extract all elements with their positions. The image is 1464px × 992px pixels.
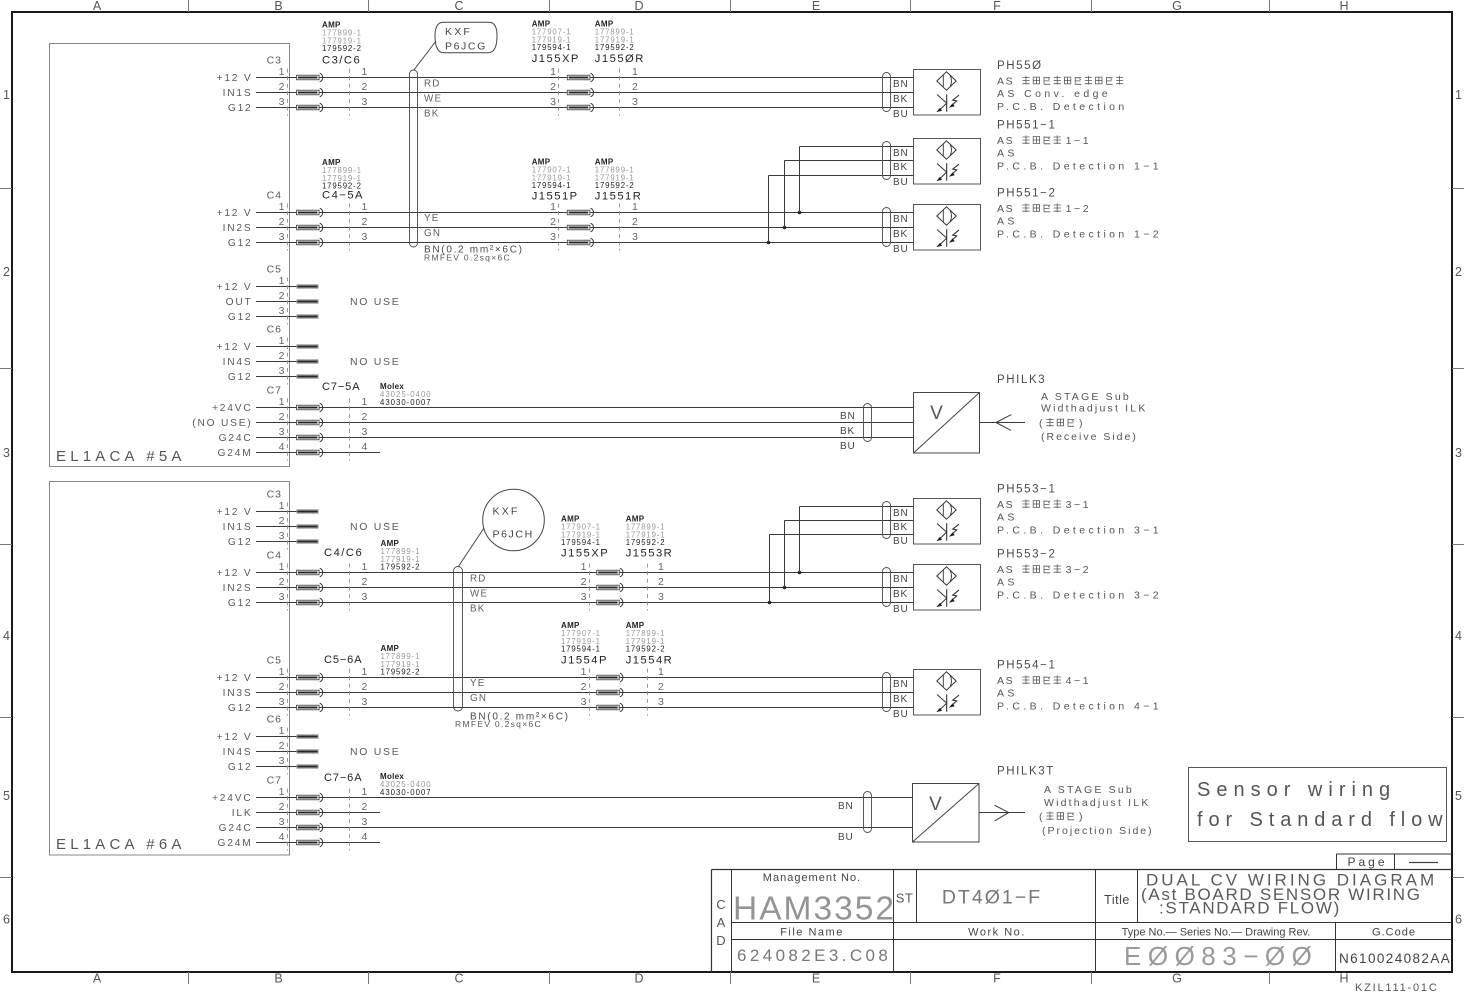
svg-text:P.C.B. Detection 3−1: P.C.B. Detection 3−1 [997, 525, 1162, 537]
svg-text:2: 2 [279, 81, 285, 93]
svg-text:3: 3 [362, 696, 368, 708]
svg-text:G24M: G24M [218, 838, 253, 849]
wire +12 V pin 1 of C5b [217, 666, 913, 684]
svg-text:J1554R: J1554R [626, 655, 674, 667]
label PH551-1 [997, 120, 1162, 173]
svg-text:IN2S: IN2S [223, 223, 253, 234]
svg-text:1: 1 [279, 396, 285, 408]
svg-text:1: 1 [362, 561, 368, 573]
svg-text:2: 2 [279, 576, 285, 588]
svg-text:AS: AS [997, 688, 1018, 700]
svg-text:AS: AS [997, 512, 1018, 524]
svg-text:2: 2 [279, 740, 285, 752]
svg-text:PHILK3: PHILK3 [997, 374, 1046, 386]
label File Name [780, 927, 844, 939]
svg-text:4: 4 [3, 629, 10, 643]
svg-text:3: 3 [279, 755, 285, 767]
svg-text:BK: BK [893, 229, 908, 240]
svg-text:+12 V: +12 V [217, 507, 253, 518]
svg-text:179592-2: 179592-2 [381, 563, 421, 572]
svg-text:C: C [716, 897, 725, 912]
svg-text:2: 2 [279, 216, 285, 228]
wire IN4S pin 2 of C6 [223, 350, 319, 368]
title block grid [712, 854, 1453, 972]
connector C5 (EL1ACA #6A) [267, 655, 350, 716]
svg-text:1: 1 [362, 201, 368, 213]
svg-text:A: A [93, 972, 102, 986]
svg-text:C7: C7 [267, 385, 282, 397]
label PHILK3T [997, 766, 1154, 838]
label PHILK3 [997, 374, 1148, 443]
svg-text:P.C.B. Detection 3−2: P.C.B. Detection 3−2 [997, 590, 1162, 602]
svg-text:P.C.B. Detection 4−1: P.C.B. Detection 4−1 [997, 701, 1162, 713]
svg-text:5: 5 [3, 789, 10, 803]
svg-text:D: D [634, 0, 643, 13]
branch wires C4 to sensor PH551-1 with junctions [767, 147, 913, 245]
svg-text:NO USE: NO USE [350, 356, 400, 368]
svg-text:179592-2: 179592-2 [595, 43, 635, 52]
svg-text:179592-2: 179592-2 [381, 668, 421, 677]
svg-text:1−2: 1−2 [1066, 203, 1092, 215]
svg-text:2: 2 [362, 81, 368, 93]
label Management No. [763, 872, 861, 884]
svg-text:D: D [634, 972, 643, 986]
svg-text:1: 1 [550, 201, 556, 213]
svg-text:2: 2 [581, 576, 587, 588]
svg-text:J155XP: J155XP [532, 53, 580, 65]
label Type-Series-Drawing [1122, 927, 1311, 939]
cable sheath KXF P6JCG [410, 70, 418, 247]
wire +12 V pin 1 of C6 [217, 335, 319, 353]
svg-text:3: 3 [279, 816, 285, 828]
svg-text:2: 2 [632, 81, 638, 93]
photo sensor PH553-1 [883, 499, 981, 548]
svg-text:P6JCH: P6JCH [493, 529, 534, 541]
connector J155XP/J1553R contacts row [581, 561, 664, 611]
drawing number KZIL111-01C [1355, 982, 1439, 992]
svg-text:2: 2 [632, 216, 638, 228]
svg-text:Page: Page [1348, 855, 1388, 869]
wire +12 V pin 1 of C5 [217, 275, 319, 293]
svg-text:Sensor wiring: Sensor wiring [1197, 779, 1396, 801]
svg-text:BU: BU [838, 832, 854, 843]
svg-text:ST: ST [896, 891, 914, 906]
svg-text:BN: BN [893, 214, 909, 225]
svg-text:RMFEV 0.2sq×6C: RMFEV 0.2sq×6C [455, 719, 542, 729]
label Title [1104, 893, 1130, 907]
wire G12 pin 3 of C4 [228, 231, 913, 249]
svg-text:PHILK3T: PHILK3T [997, 766, 1055, 778]
svg-text:BN: BN [893, 508, 909, 519]
svg-text:3: 3 [279, 591, 285, 603]
svg-text:1: 1 [279, 66, 285, 78]
svg-text:AS Conv. edge: AS Conv. edge [997, 88, 1111, 100]
wire +12 V pin 1 of C6b [217, 725, 319, 743]
svg-text:1: 1 [632, 66, 638, 78]
svg-text:624082E3.C08: 624082E3.C08 [737, 946, 891, 965]
projection arrow out of PHILK3T [979, 805, 1025, 821]
svg-text:BN: BN [838, 801, 854, 812]
svg-text:DT4Ø1−F: DT4Ø1−F [942, 887, 1042, 909]
svg-text:C4: C4 [267, 190, 282, 202]
connector C4 (EL1ACA #6A) [267, 550, 350, 611]
svg-text:C: C [454, 972, 463, 986]
svg-text:IN2S: IN2S [223, 583, 253, 594]
wire G24C pin 3 of C7b [219, 816, 912, 834]
wire +24VC pin 1 of C7b [212, 786, 912, 804]
wire G24M pin 4 of C7b [218, 831, 380, 849]
connector J155XP labels [532, 20, 580, 66]
svg-text:BN: BN [893, 79, 909, 90]
svg-text:BN: BN [893, 679, 909, 690]
svg-text:+12 V: +12 V [217, 342, 253, 353]
label NO USE (C6 #6A) [350, 746, 400, 758]
svg-text:B: B [274, 0, 282, 13]
title text [1141, 871, 1437, 918]
svg-text:E: E [812, 0, 820, 13]
wire color labels RD WE BK (cable 2) [470, 574, 488, 615]
svg-text:3: 3 [658, 591, 664, 603]
value HAM3352 [733, 891, 896, 928]
svg-text:2: 2 [362, 576, 368, 588]
leader line balloon2 to cable [458, 528, 484, 567]
cable name BN(0.2mm x 6C) 2 [455, 712, 570, 730]
value DT401-F [942, 887, 1042, 909]
wire G12 pin 3 of C3 [228, 96, 913, 114]
svg-text:KXF: KXF [445, 26, 472, 38]
svg-text:C7−5A: C7−5A [322, 381, 360, 393]
svg-text:AS: AS [997, 499, 1014, 511]
svg-text::STANDARD FLOW): :STANDARD FLOW) [1159, 899, 1341, 918]
svg-text:1: 1 [362, 786, 368, 798]
svg-text:1: 1 [279, 786, 285, 798]
svg-text:P.C.B. Detection 1−1: P.C.B. Detection 1−1 [997, 161, 1162, 173]
svg-text:C5−6A: C5−6A [324, 654, 362, 666]
svg-text:3: 3 [658, 696, 664, 708]
svg-text:A STAGE Sub: A STAGE Sub [1044, 784, 1134, 796]
svg-text:RD: RD [424, 79, 441, 90]
svg-text:G12: G12 [228, 312, 253, 323]
svg-text:179592-2: 179592-2 [626, 538, 666, 547]
svg-text:(Receive Side): (Receive Side) [1041, 431, 1138, 443]
note box Sensor wiring for Standard flow [1189, 768, 1449, 842]
connector J1554P/J1554R contacts row [581, 666, 664, 716]
svg-text:+24VC: +24VC [212, 793, 252, 804]
wire G12 pin 3 of C3b [228, 530, 319, 548]
wire IN1S pin 2 of C3 [223, 81, 913, 99]
value File Name 624082E3.C08 [737, 946, 891, 965]
svg-text:BK: BK [893, 162, 908, 173]
svg-text:3: 3 [581, 696, 587, 708]
svg-text:P.C.B. Detection 1−2: P.C.B. Detection 1−2 [997, 229, 1162, 241]
svg-text:PH554−1: PH554−1 [997, 660, 1056, 672]
value E0083-00 [1124, 941, 1318, 971]
svg-text:BN: BN [840, 411, 856, 422]
svg-text:G: G [1172, 0, 1182, 13]
svg-text:AS: AS [997, 148, 1018, 160]
svg-text:AS: AS [997, 135, 1014, 147]
wire G12 pin 3 of C6 [228, 365, 319, 383]
svg-text:2: 2 [362, 681, 368, 693]
svg-text:GN: GN [470, 693, 487, 704]
svg-text:179592-2: 179592-2 [595, 181, 635, 190]
label NO USE (C5) [350, 296, 400, 308]
wire +24VC pin 1 of C7 [212, 396, 913, 414]
svg-text:3−2: 3−2 [1066, 564, 1092, 576]
svg-text:+12 V: +12 V [217, 282, 253, 293]
svg-text:+12 V: +12 V [217, 208, 253, 219]
svg-text:1−1: 1−1 [1066, 135, 1092, 147]
svg-text:RMFEV 0.2sq×6C: RMFEV 0.2sq×6C [424, 253, 511, 263]
svg-text:1: 1 [362, 396, 368, 408]
svg-text:B: B [274, 972, 282, 986]
svg-text:+24VC: +24VC [212, 403, 252, 414]
svg-text:C3/C6: C3/C6 [322, 55, 361, 67]
connector C4/C6 cable plug labels [324, 539, 420, 572]
svg-text:1: 1 [362, 66, 368, 78]
connector C3 (EL1ACA #5A) [267, 55, 350, 116]
wire +12 V pin 1 of C3b [217, 500, 319, 518]
label NO USE (C6) [350, 356, 400, 368]
svg-text:3: 3 [1455, 446, 1462, 460]
svg-text:179592-2: 179592-2 [322, 44, 362, 53]
svg-text:F: F [993, 972, 1001, 986]
svg-text:BU: BU [893, 709, 909, 720]
svg-text:for Standard flow: for Standard flow [1197, 809, 1449, 831]
wire IN1S pin 2 of C3b [223, 515, 319, 533]
wire color labels YE GN (cable 2) [470, 678, 487, 704]
svg-text:P6JCG: P6JCG [445, 41, 487, 53]
svg-text:1: 1 [581, 666, 587, 678]
svg-text:4: 4 [279, 831, 285, 843]
connector J1553R labels [626, 515, 674, 560]
svg-text:+12 V: +12 V [217, 732, 253, 743]
svg-text:2: 2 [279, 801, 285, 813]
label PH553-1 [997, 484, 1162, 537]
svg-text:1: 1 [632, 201, 638, 213]
svg-text:HAM3352: HAM3352 [733, 891, 896, 928]
wire G24C pin 3 of C7 [219, 426, 913, 444]
connector C6 (EL1ACA #6A, no use) [267, 714, 288, 775]
label PH550 [997, 60, 1128, 113]
svg-text:1: 1 [279, 275, 285, 287]
svg-text:3: 3 [362, 231, 368, 243]
svg-text:1: 1 [550, 66, 556, 78]
svg-text:J1553R: J1553R [626, 548, 674, 560]
wire (NO USE) pin 2 of C7 [192, 411, 913, 429]
svg-text:): ) [1079, 418, 1083, 430]
connector J1550R labels [595, 20, 645, 66]
svg-text:WE: WE [424, 94, 442, 105]
svg-text:BU: BU [893, 244, 909, 255]
svg-text:G24C: G24C [219, 823, 253, 834]
svg-text:BU: BU [893, 177, 909, 188]
label ST [896, 891, 914, 906]
svg-text:3−1: 3−1 [1066, 499, 1092, 511]
wire IN2S pin 2 of C4 [223, 216, 913, 234]
svg-text:AS: AS [997, 216, 1018, 228]
interlock sensor PHILK3T (projector) [838, 784, 979, 844]
wire G12 pin 3 of C5b [228, 696, 913, 714]
svg-text:G12: G12 [228, 703, 253, 714]
svg-text:PH553−2: PH553−2 [997, 549, 1056, 561]
svg-text:(: ( [1039, 811, 1043, 823]
svg-text:PH551−1: PH551−1 [997, 120, 1056, 132]
leader line balloon to cable [414, 41, 437, 71]
svg-text:C4/C6: C4/C6 [324, 547, 363, 559]
svg-text:3: 3 [3, 446, 10, 460]
connector J155XP/J1550R contacts row1 [550, 66, 638, 116]
wire +12 V pin 1 of C4 [217, 201, 913, 219]
wire IN2S pin 2 of C4b [223, 576, 913, 594]
svg-text:IN1S: IN1S [223, 88, 253, 99]
svg-text:AS: AS [997, 577, 1018, 589]
svg-text:C4−5A: C4−5A [322, 190, 364, 202]
svg-text:3: 3 [362, 816, 368, 828]
svg-text:YE: YE [470, 678, 485, 689]
svg-text:EL1ACA #6A: EL1ACA #6A [56, 836, 186, 853]
svg-text:1: 1 [362, 666, 368, 678]
svg-text:C3: C3 [267, 489, 282, 501]
svg-text:F: F [993, 0, 1001, 13]
svg-text:): ) [1079, 811, 1083, 823]
connector J155XP labels row2 [561, 515, 609, 560]
svg-text:V: V [930, 403, 943, 424]
svg-text:(Projection Side): (Projection Side) [1042, 825, 1154, 837]
connector C5-6A cable plug labels [324, 644, 420, 677]
svg-text:C6: C6 [267, 714, 282, 726]
svg-text:BN: BN [893, 574, 909, 585]
svg-text:2: 2 [362, 801, 368, 813]
svg-text:179594-1: 179594-1 [561, 645, 601, 654]
svg-text:3: 3 [362, 96, 368, 108]
connector C6 (EL1ACA #5A, no use) [267, 324, 288, 385]
svg-text:2: 2 [279, 350, 285, 362]
svg-text:BK: BK [840, 426, 855, 437]
svg-text:43030-0007: 43030-0007 [380, 398, 432, 407]
svg-text:AS: AS [997, 203, 1014, 215]
svg-text:AS: AS [997, 564, 1014, 576]
wire +12 V pin 1 of C3 [217, 66, 913, 84]
svg-text:1: 1 [1455, 88, 1462, 102]
cable name BN(0.2mm x 6C) [424, 245, 524, 263]
svg-text:C5: C5 [267, 655, 282, 667]
svg-text:J1554P: J1554P [561, 655, 608, 667]
svg-text:2: 2 [362, 411, 368, 423]
svg-text:C7−6A: C7−6A [324, 772, 362, 784]
svg-text:J155ØR: J155ØR [595, 53, 645, 65]
svg-text:EØØ83−ØØ: EØØ83−ØØ [1124, 941, 1318, 971]
svg-text:2: 2 [658, 681, 664, 693]
svg-text:4: 4 [362, 831, 368, 843]
receive arrow into PHILK3 [980, 415, 1026, 431]
svg-text:1: 1 [279, 201, 285, 213]
svg-text:179594-1: 179594-1 [561, 538, 601, 547]
connector C5 (EL1ACA #5A, no use) [267, 264, 288, 325]
label NO USE (C3 #6A) [350, 521, 400, 533]
svg-text:179594-1: 179594-1 [532, 181, 572, 190]
connector C4-5A cable plug labels [322, 158, 364, 202]
wire OUT pin 2 of C5 [226, 290, 319, 308]
svg-text:BU: BU [893, 604, 909, 615]
svg-text:1: 1 [279, 500, 285, 512]
svg-text:KZIL111-01C: KZIL111-01C [1355, 982, 1439, 992]
photo sensor PH553-2 [883, 565, 981, 616]
svg-text:C7: C7 [267, 775, 282, 787]
svg-text:NO USE: NO USE [350, 521, 400, 533]
svg-text:1: 1 [658, 561, 664, 573]
connector J1551R labels [595, 158, 643, 203]
svg-text:IN1S: IN1S [223, 522, 253, 533]
svg-text:A STAGE Sub: A STAGE Sub [1041, 391, 1131, 403]
svg-text:IN4S: IN4S [223, 357, 253, 368]
svg-text:2: 2 [658, 576, 664, 588]
svg-text:3: 3 [362, 591, 368, 603]
svg-text:C3: C3 [267, 55, 282, 67]
svg-text:2: 2 [279, 515, 285, 527]
wire color labels YE GN (cable 1) [424, 213, 441, 239]
svg-text:2: 2 [279, 411, 285, 423]
svg-text:6: 6 [3, 913, 10, 927]
svg-text:G12: G12 [228, 598, 253, 609]
svg-text:3: 3 [279, 696, 285, 708]
svg-text:OUT: OUT [226, 297, 253, 308]
svg-text:179594-1: 179594-1 [532, 43, 572, 52]
svg-text:1: 1 [279, 561, 285, 573]
connector J1551P labels [532, 158, 579, 203]
svg-text:EL1ACA #5A: EL1ACA #5A [56, 448, 186, 465]
svg-text:Widthadjust ILK: Widthadjust ILK [1041, 403, 1148, 415]
svg-text:C: C [454, 0, 463, 13]
svg-text:2: 2 [550, 216, 556, 228]
wire IN4S pin 2 of C6b [223, 740, 319, 758]
svg-text:N610024082AA: N610024082AA [1339, 951, 1451, 966]
svg-text:3: 3 [632, 231, 638, 243]
wire G24M pin 4 of C7 [218, 441, 380, 459]
svg-text:3: 3 [632, 96, 638, 108]
svg-text:3: 3 [581, 591, 587, 603]
svg-text:Title: Title [1104, 893, 1130, 907]
svg-text:(: ( [1039, 418, 1043, 430]
svg-text:4: 4 [1455, 629, 1462, 643]
svg-text:1: 1 [658, 666, 664, 678]
branch wires C4#6A to sensor PH553-1 with junctions [768, 507, 913, 605]
svg-text:3: 3 [279, 365, 285, 377]
svg-text:3: 3 [279, 426, 285, 438]
svg-text:3: 3 [279, 231, 285, 243]
svg-text:A: A [93, 0, 102, 13]
svg-text:43030-0007: 43030-0007 [380, 788, 432, 797]
svg-text:4: 4 [362, 441, 368, 453]
svg-text:C5: C5 [267, 264, 282, 276]
svg-text:G24M: G24M [218, 448, 253, 459]
value G.Code N610024082AA [1339, 951, 1451, 966]
photo sensor PH554-1 [883, 670, 981, 721]
svg-text:IN3S: IN3S [223, 688, 253, 699]
svg-text:WE: WE [470, 589, 488, 600]
svg-text:Type No.— Series No.— Drawing: Type No.— Series No.— Drawing Rev. [1122, 927, 1311, 939]
svg-text:3: 3 [550, 96, 556, 108]
svg-text:+12 V: +12 V [217, 673, 253, 684]
svg-text:P.C.B. Detection: P.C.B. Detection [997, 101, 1128, 113]
svg-text:File Name: File Name [780, 927, 844, 939]
svg-text:G12: G12 [228, 372, 253, 383]
board EL1ACA #6A enclosure [50, 482, 290, 856]
svg-text:2: 2 [3, 265, 10, 279]
connector C7 (EL1ACA #6A) [267, 775, 350, 851]
svg-text:BK: BK [424, 109, 439, 120]
svg-text:G.Code: G.Code [1372, 927, 1416, 939]
